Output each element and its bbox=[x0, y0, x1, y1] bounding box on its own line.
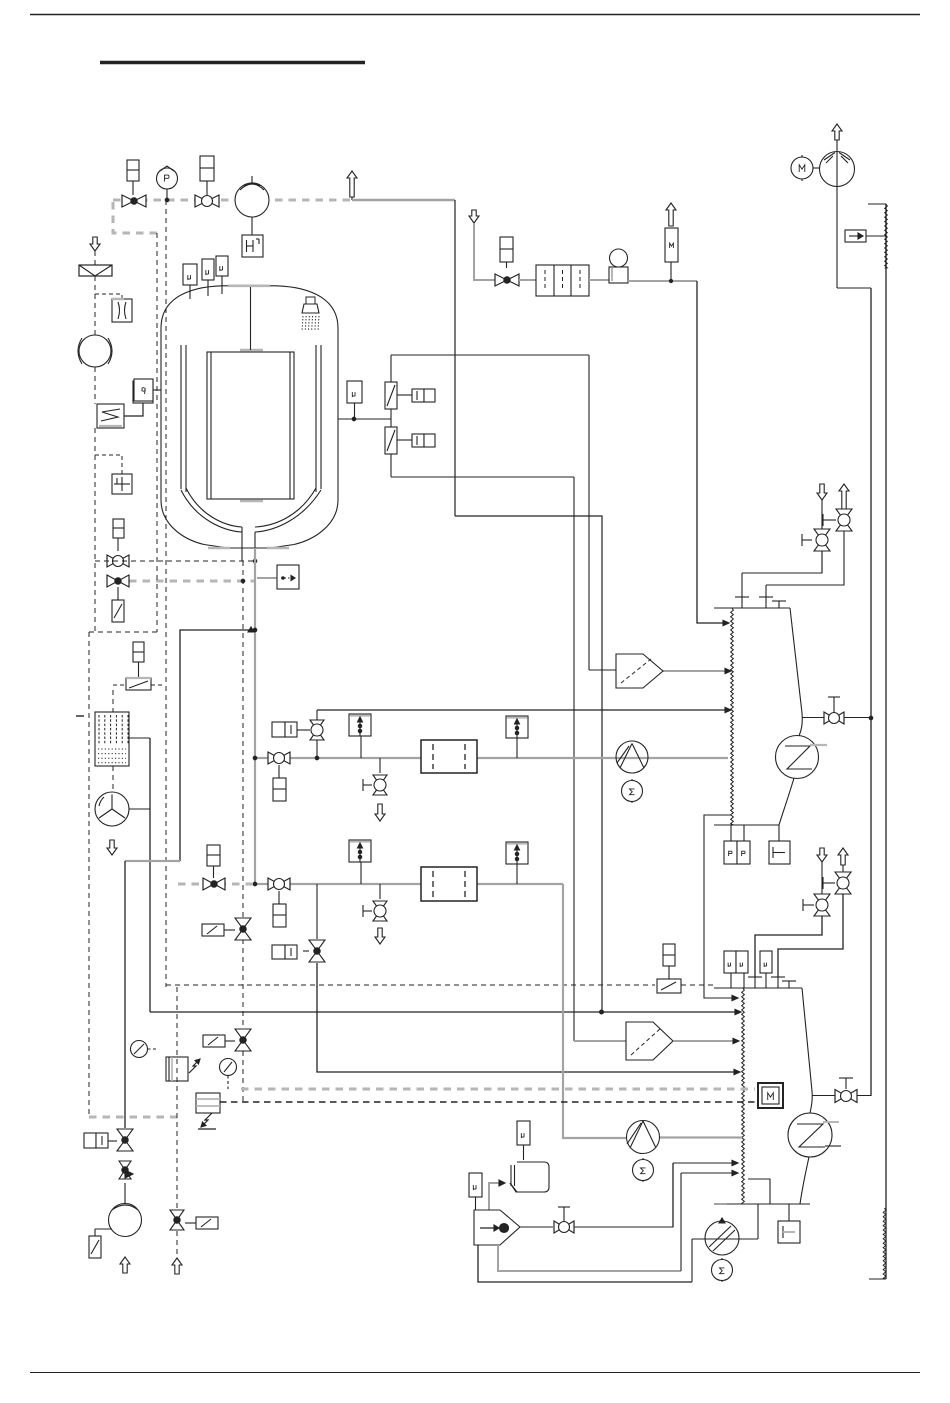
baffle left bbox=[180, 345, 182, 489]
RV1 outlet link bbox=[129, 808, 150, 810]
P5 to UF2 bottom bbox=[757, 1204, 759, 1239]
bioreactor R1 shell bbox=[161, 286, 338, 548]
UF1 feed stub B bbox=[765, 585, 767, 608]
flow element FE1 bbox=[665, 228, 678, 262]
instrument box TI0 bbox=[133, 381, 153, 403]
motor M0 bbox=[791, 157, 813, 179]
pump P5 bbox=[692, 1238, 758, 1240]
drain arrow line1 bbox=[375, 804, 385, 821]
sample point D1a bbox=[349, 714, 371, 736]
pressure instrument PI1 bbox=[157, 168, 178, 189]
drain arrow V19 bbox=[172, 1258, 182, 1274]
analyzer AE2 bbox=[385, 427, 397, 454]
UF1 top tee bbox=[778, 601, 780, 608]
sight glass SG bbox=[112, 299, 132, 322]
vent arrow A6 bbox=[839, 484, 849, 509]
permeate line y671 bbox=[663, 670, 727, 672]
level box LB9 bbox=[845, 230, 866, 242]
UF1 top line bbox=[714, 607, 790, 609]
valve V17 bbox=[117, 1129, 133, 1140]
UF2 top instruments MM bbox=[724, 951, 736, 973]
junction dot x602 bbox=[600, 1010, 604, 1014]
V6 riser bbox=[821, 500, 823, 529]
feed dashed line seg3 bbox=[94, 367, 96, 404]
media line2 gray bbox=[255, 883, 563, 885]
pump P5 suction bbox=[691, 1239, 693, 1282]
UF1 feed line B bbox=[766, 531, 844, 585]
CIP dashed x177 b bbox=[176, 1231, 178, 1258]
line V5 to filter bbox=[519, 279, 536, 281]
instrument box MB1 bbox=[347, 381, 362, 403]
P4 seal pot bbox=[89, 1236, 101, 1258]
bypass valve V13 bbox=[316, 710, 318, 758]
mixer line to UF2 bbox=[574, 1226, 673, 1228]
valve V20 bbox=[554, 1221, 564, 1233]
instrument air dashed x157 bbox=[156, 233, 158, 632]
V14 bottom instrument bbox=[278, 891, 280, 904]
branch to cross box bbox=[95, 455, 122, 474]
UF2 bottom line bbox=[727, 1203, 810, 1205]
recirc line x180 bbox=[180, 630, 251, 861]
UF1 feed line A bbox=[742, 551, 822, 573]
drain dashed x243 bbox=[242, 561, 244, 1029]
instrument box IB1 bbox=[113, 519, 124, 538]
instrument air dashed x166 bbox=[165, 200, 167, 987]
gray link y861 bbox=[125, 860, 180, 862]
valve V1 actuator bbox=[127, 160, 139, 181]
butterfly valve BV1 bbox=[126, 678, 151, 690]
UF2 top tee bbox=[788, 981, 790, 988]
valve V18 bbox=[119, 1161, 131, 1170]
UF2 top instrument M3 bbox=[760, 951, 772, 973]
UF1 bottom instrument H1 bbox=[778, 825, 780, 841]
vent line to header bbox=[351, 171, 353, 200]
pump P1 bbox=[235, 183, 269, 217]
motor link M0 bbox=[813, 167, 820, 169]
waste boundary top cap bbox=[868, 203, 886, 205]
S2 outlet bbox=[673, 1040, 735, 1042]
signal line y355 bbox=[391, 354, 589, 356]
header line to main drop bbox=[352, 199, 455, 201]
vent line x474 bbox=[474, 223, 495, 280]
analyzer AE1 bbox=[385, 382, 397, 409]
pump PR top right bbox=[820, 152, 855, 187]
transfer elbow y516 bbox=[455, 516, 602, 1012]
baffle right bbox=[315, 345, 317, 492]
CB1 top box bbox=[663, 944, 675, 966]
sample point D2b bbox=[506, 842, 528, 864]
product line y1096 bbox=[812, 1095, 871, 1097]
control instrument CB1 bbox=[657, 979, 681, 993]
junction dot line1 start bbox=[253, 756, 257, 760]
line F1 to compressor bbox=[589, 279, 609, 281]
beaker instrument NB1 bbox=[517, 1121, 530, 1145]
gauge PG2 bbox=[220, 1059, 237, 1076]
GF outlet bbox=[129, 737, 150, 739]
valve V2 bbox=[195, 195, 207, 207]
line x589 to separator bbox=[588, 355, 590, 670]
UF2 feed stub B bbox=[777, 977, 779, 988]
UF2 feed line B bbox=[778, 894, 843, 977]
valve V11 bbox=[835, 1090, 846, 1103]
static mixer SM2 bbox=[421, 867, 477, 901]
junction dot line2 start bbox=[253, 882, 257, 886]
rotary valve RV1 bbox=[95, 792, 129, 826]
V12 bottom instrument bbox=[278, 765, 280, 778]
valve V10 bbox=[814, 894, 830, 905]
solenoid SV1 bbox=[196, 1093, 220, 1113]
junction dot y581 bbox=[241, 579, 245, 583]
feed dashed line seg1 bbox=[94, 251, 96, 265]
UF1 bottom instrument PP bbox=[730, 825, 732, 841]
UF2 top line bbox=[714, 987, 802, 989]
valve V3 ball bbox=[107, 555, 118, 567]
regulator REG bbox=[166, 1057, 188, 1081]
figure title underline bbox=[100, 61, 365, 64]
compressor K1 bbox=[609, 267, 628, 283]
UF2 feed line A bbox=[755, 916, 822, 977]
page bottom rule bbox=[30, 1372, 920, 1374]
waste hatch bottom bbox=[883, 1208, 886, 1279]
pump P2 bbox=[616, 741, 648, 773]
vessel top instrument TB1 bbox=[183, 264, 197, 285]
gas line to column1 top bbox=[697, 281, 724, 623]
UF2 internal line bbox=[748, 1179, 770, 1204]
vent arrow A4 bbox=[666, 203, 676, 226]
valve V4 bbox=[107, 575, 118, 587]
inline mixer MX1 bbox=[474, 1210, 520, 1245]
drain arrow line2 bbox=[375, 928, 385, 944]
valve V1 bbox=[122, 195, 134, 207]
drain arrow P4 bbox=[120, 1257, 130, 1273]
pump P1 level pot bbox=[251, 217, 253, 235]
vessel outlet pipe bbox=[241, 527, 243, 561]
UF2 bottom instrument H2 bbox=[788, 1204, 790, 1221]
controller M-box bbox=[758, 1083, 783, 1108]
HX2 heat exchanger bbox=[788, 1113, 832, 1157]
UF1 feed stub A bbox=[741, 573, 743, 608]
gas drop x455 bbox=[454, 200, 456, 516]
pump P4 bbox=[124, 1183, 126, 1204]
gray dashed y884 left bbox=[178, 882, 255, 885]
valve V21 bbox=[203, 878, 214, 890]
vessel bottom gray caps bbox=[208, 547, 230, 549]
valve V7 bbox=[836, 509, 852, 520]
butterfly valve BV1 actuator bbox=[133, 642, 144, 662]
sample dashed line y561 bbox=[95, 560, 255, 562]
separator S1 bbox=[616, 654, 663, 688]
media line1 gray bbox=[255, 757, 728, 759]
valve V14 bbox=[268, 878, 279, 890]
black dashed control y1102 bbox=[220, 1101, 755, 1103]
dashed control line to UF2 bbox=[166, 984, 655, 986]
HX1 to UF1 bottom bbox=[779, 778, 794, 825]
valve V8 bbox=[824, 712, 834, 724]
mixer drain B bbox=[478, 1245, 692, 1282]
draft tube gray caps bbox=[240, 349, 263, 352]
feed dashed line seg4 bbox=[94, 428, 96, 632]
media line2 elbow bbox=[563, 884, 627, 1138]
line x574 to cyclone bbox=[573, 477, 575, 1041]
vent arrow A3 bbox=[469, 210, 479, 223]
draft tube bbox=[207, 352, 294, 499]
UF1 bottom line bbox=[714, 824, 779, 826]
vessel outlet gray main bbox=[254, 548, 256, 884]
HX2 to UF2 bottom bbox=[800, 1157, 809, 1204]
gray dashed control y1089 bbox=[241, 1087, 755, 1090]
valve V16 bbox=[235, 1029, 251, 1040]
waste boundary x886 bbox=[885, 204, 887, 1279]
grid filter GF bbox=[95, 712, 129, 766]
junction dot x871 y718 bbox=[869, 716, 873, 720]
line vessel to sensors y419 bbox=[338, 418, 391, 420]
left margin tick bbox=[76, 715, 84, 717]
valve V12 bbox=[268, 752, 279, 764]
diaphragm pump P0 bbox=[79, 335, 111, 367]
valve V2 actuator bbox=[200, 156, 214, 181]
drain valve set line2 bbox=[379, 884, 381, 899]
valve V21 actuator bbox=[207, 845, 220, 866]
motor M3b bbox=[633, 1160, 654, 1181]
motor M5 bbox=[712, 1260, 733, 1281]
junction dot y561 bbox=[253, 559, 257, 563]
signal line y477 bbox=[391, 476, 574, 478]
permeate line y710 bbox=[317, 709, 727, 711]
waste hatch top bbox=[885, 204, 888, 268]
dashed box left bbox=[88, 632, 90, 1117]
page top rule bbox=[30, 14, 920, 16]
gray dashed CIP return bbox=[89, 1115, 178, 1118]
mixer outlet bbox=[520, 1226, 553, 1228]
HX0 instrument link bbox=[124, 403, 143, 416]
valve V9 bbox=[835, 872, 851, 883]
UF2 feed stub A bbox=[754, 977, 756, 988]
sensor bus vertical x391 bbox=[390, 355, 392, 477]
header dashed branch elbow bbox=[113, 202, 157, 233]
pump PR line bbox=[836, 137, 838, 288]
junction UF2 return A bbox=[672, 1226, 674, 1228]
solids dashed x113 b bbox=[112, 766, 114, 792]
junction dot line1 bbox=[315, 756, 319, 760]
valve V5 actuator bbox=[500, 237, 513, 262]
feed arrow A2 bbox=[90, 237, 100, 251]
BV1 dashed line bbox=[113, 684, 126, 686]
feed funnel bbox=[79, 265, 112, 276]
gauge PG1 bbox=[131, 1041, 148, 1058]
vessel top instrument TB3 bbox=[216, 256, 228, 276]
diaphragm pump P3 bbox=[627, 1121, 660, 1154]
sample point D2a bbox=[349, 840, 371, 862]
line x125 down bbox=[124, 861, 126, 1128]
valve V16b bbox=[235, 918, 251, 929]
CIP dashed x177 bbox=[176, 987, 178, 1209]
drain dashed x243 lower bbox=[242, 1051, 244, 1102]
P3 discharge gray bbox=[659, 1136, 742, 1138]
vent arrow A7 bbox=[817, 848, 827, 862]
waste bottom cap bbox=[869, 1278, 886, 1280]
harvest line y1012 bbox=[150, 1011, 737, 1013]
agitator shaft bbox=[250, 287, 252, 350]
heater HX0 bbox=[97, 404, 124, 428]
line K1 onward bbox=[628, 280, 697, 282]
dashed box top bbox=[89, 631, 157, 633]
vessel left instrument LB1 bbox=[134, 379, 153, 401]
static mixer SM1 bbox=[421, 740, 477, 773]
valve V15 branch bbox=[316, 884, 318, 939]
UF1 shell right bbox=[790, 608, 802, 736]
junction dot MB1 bbox=[352, 417, 356, 421]
dashed control line to UF2 b bbox=[681, 984, 714, 986]
UF2 return B bbox=[680, 1173, 682, 1271]
UF2 membrane edge bbox=[742, 988, 745, 1204]
UF2 return A bbox=[672, 1163, 674, 1227]
solids arrow out bbox=[107, 840, 117, 855]
sterile filter F1 bbox=[536, 265, 589, 296]
line x150 harvest bbox=[149, 738, 151, 1012]
vent arrow A5 bbox=[817, 484, 827, 500]
HX1 heat exchanger bbox=[776, 736, 819, 779]
solids dashed x113 bbox=[112, 690, 114, 712]
outlet sample box bbox=[257, 577, 277, 579]
valve V6 bbox=[814, 529, 830, 540]
sight-glass branch bbox=[95, 294, 122, 299]
branch to UF2 y1072 bbox=[317, 963, 735, 1072]
cross box X1 bbox=[112, 474, 132, 494]
valve V5 bbox=[495, 274, 507, 286]
spray ball bbox=[306, 297, 315, 304]
mixer instrument NB2 bbox=[469, 1173, 482, 1197]
vent arrow A8 bbox=[838, 848, 848, 865]
valve V19 bbox=[170, 1210, 184, 1220]
motor M2 bbox=[622, 781, 643, 802]
vessel inner dish bbox=[186, 488, 316, 527]
drain valve set line1 bbox=[379, 758, 381, 773]
vent arrow A1 bbox=[347, 171, 357, 197]
sample point D1b bbox=[506, 716, 528, 738]
junction dot x255 y630 bbox=[253, 628, 257, 632]
mixer drain A bbox=[498, 1245, 681, 1271]
UF2 shell right bbox=[802, 988, 812, 1113]
beaker BK1 bbox=[510, 1162, 549, 1192]
separator S2 bbox=[626, 1022, 673, 1060]
vessel top instrument TB2 bbox=[202, 259, 214, 280]
V4 bottom instrument bbox=[117, 587, 119, 600]
vessel dome gray cap bbox=[228, 284, 270, 287]
vent arrow A9 bbox=[832, 124, 842, 140]
UF1 membrane edge bbox=[731, 608, 734, 825]
UF1 retentate loop bbox=[704, 815, 733, 998]
feed dashed line seg2 bbox=[94, 276, 96, 335]
mixer inlet arrow bbox=[489, 1183, 500, 1210]
harvest arrow into UF2 bbox=[735, 1009, 741, 1014]
gas arrow into UF1 bbox=[723, 620, 729, 625]
header dashed supply line bbox=[113, 198, 352, 201]
line x871 pump riser bbox=[870, 288, 872, 1096]
retentate product y718 bbox=[802, 717, 871, 719]
gray dashed process y581 bbox=[129, 579, 255, 582]
